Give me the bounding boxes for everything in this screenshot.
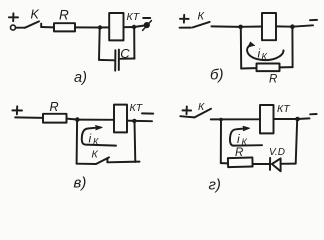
resistor R1 (а) [54,23,75,31]
wire [211,25,240,28]
svg-text:K: K [31,8,40,22]
current arrow iK (в) [82,126,116,146]
diode VD (г) [270,158,281,171]
resistor R (в) [43,114,67,123]
wire right branch down (а) [133,27,135,59]
relay coil KT (а) [109,13,123,40]
wire [16,27,25,29]
svg-text:К: К [198,11,205,23]
label minus (б) [310,19,317,21]
wire [241,26,262,28]
node junction right (а) [132,25,136,29]
wire [41,26,54,28]
wire left branch down (а) [98,28,101,60]
wire bottom right (а) [120,58,134,60]
wire bottom left (б) [241,67,256,69]
relay coil KT (г) [260,105,274,133]
svg-text:R: R [269,74,277,86]
wire bottom right (в) [108,161,140,164]
label iK (в) [89,132,100,147]
svg-text:i: i [237,132,240,146]
svg-text:R: R [235,147,243,159]
wire [180,116,194,117]
switch K (в) [96,157,109,164]
wire [134,120,152,122]
svg-text:К: К [92,149,99,161]
wire right branch down (г) [296,119,298,163]
wire [75,26,100,28]
plus (б) [180,15,189,23]
switch K (г) [195,109,212,118]
wire bottom left (в) [77,163,96,165]
svg-text:г): г) [209,177,221,194]
svg-text:КТ: КТ [277,103,291,115]
wire left branch down (б) [240,27,242,69]
wire [292,25,313,26]
svg-text:R: R [59,8,69,23]
wire [77,119,114,121]
label minus (а) [143,17,150,19]
wire [211,118,260,120]
node junction left (а) [98,25,102,29]
switch K (б) [193,22,210,28]
wire [276,25,292,27]
svg-text:К: К [242,137,248,147]
wire bottom left (г) [221,162,228,164]
svg-text:КТ: КТ [130,102,144,114]
wire [253,163,270,165]
wire [180,27,191,29]
node junction right (б) [290,24,295,29]
resistor R (б) [257,64,280,72]
svg-text:К: К [198,101,205,113]
svg-text:i: i [258,47,261,61]
wire bottom right (г) [281,163,296,165]
node junction left T (г) [219,118,223,122]
node junction left (б) [238,25,243,30]
relay coil KT (в) [114,105,127,133]
svg-text:R: R [50,100,59,114]
label minus (г) [310,113,316,115]
wire [298,117,310,120]
node junction (в) [75,117,80,122]
wire left branch down (в) [76,120,79,164]
plus (г) [183,107,192,115]
wire right branch down (б) [291,27,293,67]
wire bottom right (б) [280,66,293,68]
wire [124,26,135,28]
wire right branch down (в) [134,121,137,162]
wire [100,26,109,28]
node junction right (г) [295,117,300,122]
svg-text:в): в) [74,175,87,192]
node junction right (в) [132,119,136,123]
svg-text:i: i [89,132,92,146]
minus terminal crossed (а) [143,21,152,31]
svg-text:К: К [262,52,268,62]
wire [15,116,43,119]
switch K (а) [25,21,41,27]
current arrow iK (б) [247,42,283,60]
svg-text:б): б) [210,67,223,84]
wire [134,26,144,27]
plus (в) [12,106,22,114]
svg-text:а): а) [74,70,87,86]
svg-text:К: К [93,137,99,147]
resistor R (г) [228,157,253,167]
wire [127,120,134,122]
label iK (г) [237,132,248,147]
wire bottom left (а) [99,59,114,61]
current arrow iK (г) [230,126,262,145]
plus terminal (а) [9,13,18,30]
label iK (б) [258,47,268,62]
label minus (в) [142,112,153,114]
capacitor C (а) [115,50,119,71]
svg-text:КТ: КТ [127,11,141,23]
wire left branch down (г) [220,120,222,163]
wire [274,118,298,120]
wire [67,118,78,121]
relay coil KT (б) [262,13,276,40]
svg-text:V.D: V.D [269,147,285,158]
